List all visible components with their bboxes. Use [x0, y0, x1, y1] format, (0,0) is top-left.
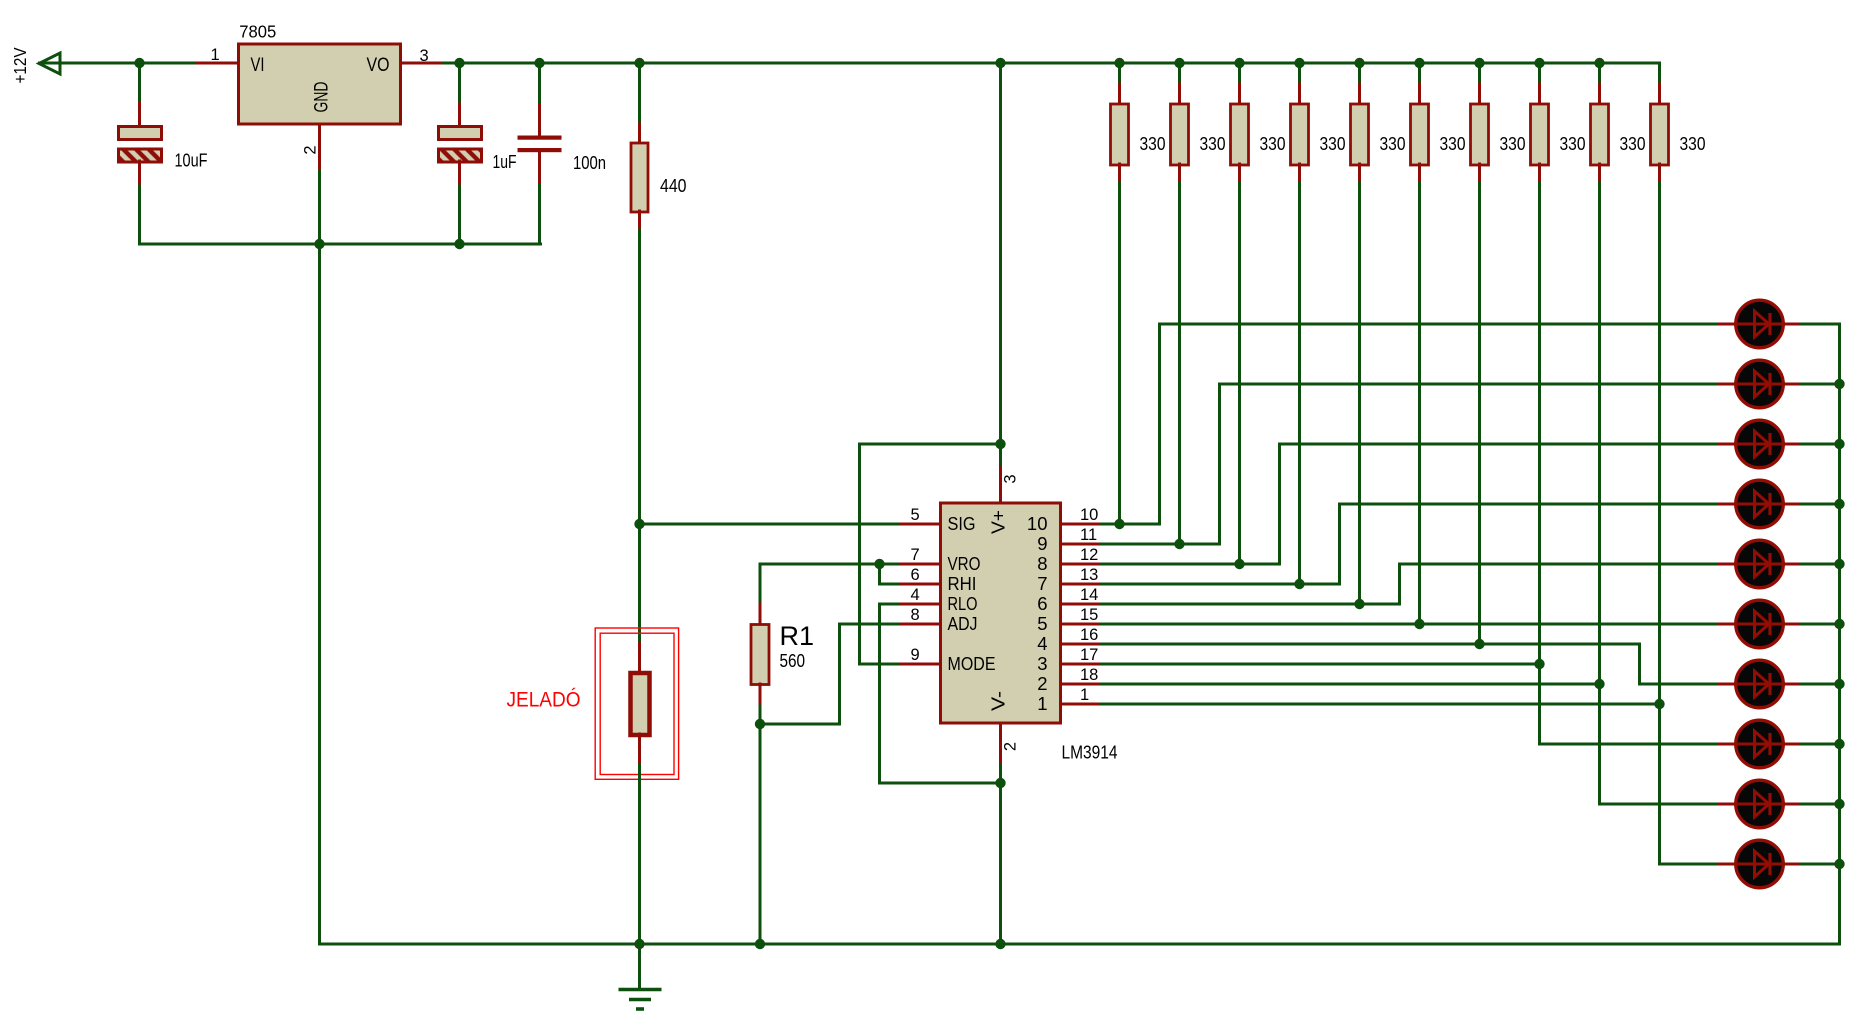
wire RHI branch vertical — [878, 564, 881, 584]
junction top rail at 330 resistor 8 — [1534, 58, 1544, 68]
pin 12 L8 of LM3914 — [1061, 563, 1101, 566]
svg-text:VRO: VRO — [948, 553, 981, 574]
wire output 9 to LED9 — [1600, 803, 1720, 806]
svg-text:3: 3 — [1002, 474, 1020, 483]
svg-text:SIG: SIG — [948, 513, 976, 534]
LED D3 anode lead — [1720, 443, 1737, 446]
resistor 330 #2 body — [1171, 104, 1189, 165]
wire output 8 to LED8 — [1540, 743, 1720, 746]
wire LED4 to right bus — [1801, 503, 1840, 506]
resistor 440 body — [631, 143, 648, 212]
resistor 330 #6 bottom lead — [1418, 164, 1421, 183]
svg-text:JELADÓ: JELADÓ — [507, 687, 581, 712]
capacitor 10uF positive plate — [119, 127, 162, 140]
wire bottom ground rail — [320, 943, 1840, 946]
pin 18 L2 of LM3914 — [1061, 683, 1101, 686]
resistor 330 #6 body — [1411, 104, 1429, 165]
LED D5 anode lead — [1720, 563, 1737, 566]
junction right bus at LED10 — [1834, 859, 1844, 869]
svg-text:+12V: +12V — [10, 47, 30, 83]
LED D6 body — [1736, 600, 1784, 648]
wire pin 18 horizontal — [1101, 683, 1600, 686]
LED D9 cathode lead — [1783, 803, 1801, 806]
junction top rail at V+ drop — [995, 58, 1005, 68]
wire RLO vertical to V- net — [878, 604, 881, 783]
capacitor 100n top lead — [538, 105, 541, 136]
svg-text:8: 8 — [1037, 553, 1047, 574]
resistor R1 top lead — [759, 604, 762, 625]
wire VRO node down to R1 — [759, 564, 762, 605]
wire V+ node to pin 3 — [999, 444, 1002, 464]
wire top rail to 330 resistor 9 — [1598, 63, 1601, 85]
junction top rail at 1uF — [454, 58, 464, 68]
resistor 330 #1 bottom lead — [1118, 164, 1121, 183]
junction output 10 at resistor 10 — [1654, 699, 1664, 709]
svg-text:560: 560 — [780, 651, 806, 671]
svg-text:VI: VI — [251, 55, 265, 76]
LED D8 anode lead — [1720, 743, 1737, 746]
svg-text:ADJ: ADJ — [948, 613, 978, 634]
resistor 330 #7 top lead — [1478, 84, 1481, 105]
resistor 330 #4 body — [1291, 104, 1309, 165]
wire pin 1 horizontal — [1101, 703, 1660, 706]
wire SIG to 440/JELADO node — [640, 523, 899, 526]
capacitor 100n bottom plate — [518, 148, 562, 152]
svg-text:10: 10 — [1027, 513, 1048, 534]
resistor 330 #4 top lead — [1298, 84, 1301, 105]
power terminal arrow +12V — [39, 53, 60, 74]
LED D7 cathode lead — [1783, 683, 1801, 686]
LED D7 body — [1736, 660, 1784, 708]
wire +12V rail to 10uF — [138, 63, 141, 103]
pin 8 ADJ of LM3914 — [899, 623, 941, 626]
pin 3 of 7805 — [401, 62, 440, 65]
wire output 1 to LED1 — [1160, 323, 1720, 326]
junction top rail at 330 resistor 9 — [1594, 58, 1604, 68]
capacitor 10uF top lead — [138, 103, 141, 127]
junction top rail at 10uF — [134, 58, 144, 68]
capacitor 10uF bottom lead — [138, 161, 141, 186]
wire output 4 to LED4 — [1340, 503, 1720, 506]
svg-text:RHI: RHI — [948, 573, 977, 594]
pin 9 MODE of LM3914 — [899, 663, 941, 666]
resistor 330 #10 top lead — [1658, 84, 1661, 105]
wire MODE horizontal to V+ node — [860, 443, 1001, 446]
resistor 330 #8 body — [1531, 104, 1549, 165]
junction VRO-RHI node — [874, 559, 884, 569]
LED D10 cathode lead — [1783, 863, 1801, 866]
svg-text:7: 7 — [911, 546, 920, 564]
svg-text:15: 15 — [1080, 606, 1098, 624]
wire LED2 to right bus — [1801, 383, 1840, 386]
LED D8 cathode lead — [1783, 743, 1801, 746]
svg-text:V-: V- — [988, 691, 1009, 711]
svg-text:MODE: MODE — [948, 653, 996, 674]
junction mid rail at 7805 pin2 — [314, 239, 324, 249]
wire 330 #6 down — [1418, 183, 1421, 624]
junction right bus at LED2 — [1834, 379, 1844, 389]
sensor JELADO inner frame — [600, 633, 674, 774]
svg-text:440: 440 — [660, 176, 687, 196]
svg-text:7805: 7805 — [239, 21, 276, 41]
LED D2 body — [1736, 360, 1784, 408]
LED D1 anode lead — [1720, 323, 1737, 326]
wire JELADO to bottom rail — [638, 765, 641, 944]
junction mid rail at 1uF — [454, 239, 464, 249]
wire +12V rail to 440 resistor — [638, 63, 641, 124]
junction output 5 at resistor 5 — [1354, 599, 1364, 609]
wire top rail to 330 resistor 8 — [1538, 63, 1541, 85]
capacitor 1uF bottom lead — [458, 161, 461, 186]
LED D8 body — [1736, 720, 1784, 768]
resistor 330 #3 bottom lead — [1238, 164, 1241, 183]
LED D4 anode lead — [1720, 503, 1737, 506]
wire VO rail to 100n — [538, 63, 541, 105]
resistor 330 #3 body — [1231, 104, 1249, 165]
LED D9 anode lead — [1720, 803, 1737, 806]
svg-text:4: 4 — [1037, 633, 1047, 654]
LED D7 anode lead — [1720, 683, 1737, 686]
junction V+ node — [995, 439, 1005, 449]
resistor 330 #2 bottom lead — [1178, 164, 1181, 183]
capacitor 1uF positive plate — [439, 127, 482, 140]
capacitor 1uF top lead — [458, 104, 461, 127]
sensor JELADO bottom lead — [638, 734, 641, 765]
wire pin 11 horizontal — [1101, 543, 1220, 546]
wire mid ground rail — [140, 243, 541, 246]
wire output 4 vertical up — [1338, 504, 1341, 584]
wire 330 #4 down — [1298, 183, 1301, 584]
junction top rail at 330 resistor 3 — [1234, 58, 1244, 68]
junction top rail at 330 resistor 4 — [1294, 58, 1304, 68]
resistor 330 #10 body — [1651, 104, 1669, 165]
svg-text:GND: GND — [312, 82, 333, 113]
svg-text:9: 9 — [1037, 533, 1047, 554]
LED D10 anode lead — [1720, 863, 1737, 866]
resistor 330 #1 top lead — [1118, 84, 1121, 105]
wire pin 10 horizontal — [1101, 523, 1160, 526]
LED D4 body — [1736, 480, 1784, 528]
wire RLO horizontal to V- node — [880, 782, 1001, 785]
wire LED9 to right bus — [1801, 803, 1840, 806]
svg-text:7: 7 — [1037, 573, 1047, 594]
resistor 330 #7 body — [1471, 104, 1489, 165]
wire RHI to pin — [880, 583, 899, 586]
wire output 3 vertical up — [1278, 444, 1281, 564]
junction bottom rail at V- — [995, 939, 1005, 949]
svg-text:330: 330 — [1380, 134, 1406, 154]
capacitor 100n top plate — [518, 136, 562, 140]
junction bottom rail at R1 — [755, 939, 765, 949]
resistor 330 #9 bottom lead — [1598, 164, 1601, 183]
LED D6 anode lead — [1720, 623, 1737, 626]
wire pin 16 horizontal — [1101, 643, 1640, 646]
pin 7 VRO of LM3914 — [899, 563, 941, 566]
svg-text:2: 2 — [302, 145, 320, 154]
wire output 2 to LED2 — [1220, 383, 1720, 386]
LED D2 anode lead — [1720, 383, 1737, 386]
junction R1-ADJ node — [755, 719, 765, 729]
wire 330 #9 down — [1598, 183, 1601, 804]
pin 13 L7 of LM3914 — [1061, 583, 1101, 586]
svg-text:1: 1 — [211, 46, 220, 64]
junction right bus at LED4 — [1834, 499, 1844, 509]
pin 15 L5 of LM3914 — [1061, 623, 1101, 626]
svg-text:5: 5 — [1037, 613, 1047, 634]
junction output 4 at resistor 4 — [1294, 579, 1304, 589]
svg-text:10: 10 — [1080, 506, 1098, 524]
wire pin 17 horizontal — [1101, 663, 1540, 666]
LED D1 cathode lead — [1783, 323, 1801, 326]
junction top rail at 100n — [534, 58, 544, 68]
pin 17 L3 of LM3914 — [1061, 663, 1101, 666]
svg-text:3: 3 — [420, 47, 429, 65]
wire RLO to pin — [880, 603, 899, 606]
sensor JELADO top lead — [638, 643, 641, 674]
svg-text:5: 5 — [911, 506, 920, 524]
junction right bus at LED9 — [1834, 799, 1844, 809]
junction right bus at LED5 — [1834, 559, 1844, 569]
wire top rail to 330 resistor 4 — [1298, 63, 1301, 85]
junction output 9 at resistor 9 — [1594, 679, 1604, 689]
svg-text:330: 330 — [1440, 134, 1466, 154]
wire VRO to R1 top — [760, 563, 899, 566]
wire output 7 to LED7 — [1640, 683, 1720, 686]
resistor 330 #2 top lead — [1178, 84, 1181, 105]
wire ADJ vertical — [838, 624, 841, 724]
wire V+ drop from top rail — [999, 63, 1002, 444]
svg-text:3: 3 — [1037, 653, 1047, 674]
pin 16 L4 of LM3914 — [1061, 643, 1101, 646]
svg-text:1: 1 — [1037, 693, 1047, 714]
LED D4 cathode lead — [1783, 503, 1801, 506]
pin 1 L1 of LM3914 — [1061, 703, 1101, 706]
svg-text:330: 330 — [1320, 134, 1346, 154]
junction output 8 at resistor 8 — [1534, 659, 1544, 669]
svg-text:6: 6 — [1037, 593, 1047, 614]
wire 440 to SIG node and JELADO — [638, 230, 641, 644]
wire ADJ to pin — [840, 623, 899, 626]
svg-text:6: 6 — [911, 566, 920, 584]
resistor 330 #5 bottom lead — [1358, 164, 1361, 183]
wire output 2 vertical up — [1218, 384, 1221, 544]
junction output 2 at resistor 2 — [1174, 539, 1184, 549]
wire 7805 pin2 down to bottom rail — [318, 171, 321, 944]
ground symbol — [619, 990, 662, 1010]
wire 330 #2 down — [1178, 183, 1181, 544]
wire 330 #7 down — [1478, 183, 1481, 644]
pin 2 of 7805 — [318, 124, 321, 171]
resistor 330 #6 top lead — [1418, 84, 1421, 105]
svg-text:11: 11 — [1080, 526, 1097, 544]
wire 10uF to gnd-mid rail — [138, 186, 141, 244]
wire LED cathode bus — [1838, 324, 1841, 944]
svg-text:330: 330 — [1620, 134, 1646, 154]
sensor JELADO outer frame — [595, 628, 678, 779]
wire output 7 vertical down — [1638, 644, 1641, 684]
resistor 330 #10 bottom lead — [1658, 164, 1661, 183]
junction SIG node — [634, 519, 644, 529]
resistor 330 #9 top lead — [1598, 84, 1601, 105]
wire top rail to 330 resistor 7 — [1478, 63, 1481, 85]
capacitor 100n bottom lead — [538, 152, 541, 185]
junction right bus at LED8 — [1834, 739, 1844, 749]
svg-text:RLO: RLO — [948, 593, 978, 614]
wire pin 12 horizontal — [1101, 563, 1280, 566]
wire +12V top rail — [40, 62, 1660, 65]
junction output 7 at resistor 7 — [1474, 639, 1484, 649]
wire LED3 to right bus — [1801, 443, 1840, 446]
resistor R1 body — [751, 625, 769, 685]
wire MODE vertical to V+ node — [858, 444, 861, 664]
svg-text:100n: 100n — [573, 153, 606, 173]
junction right bus at LED7 — [1834, 679, 1844, 689]
svg-text:14: 14 — [1080, 586, 1098, 604]
wire 330 #5 down — [1358, 183, 1361, 604]
junction right bus at LED6 — [1834, 619, 1844, 629]
pin 5 SIG of LM3914 — [899, 523, 941, 526]
junction top rail at 330 resistor 7 — [1474, 58, 1484, 68]
svg-text:1: 1 — [1080, 686, 1089, 704]
resistor 330 #5 body — [1351, 104, 1369, 165]
resistor 440 top lead — [638, 124, 641, 144]
LED D5 cathode lead — [1783, 563, 1801, 566]
wire ADJ to R1 bottom — [760, 723, 840, 726]
resistor 330 #5 top lead — [1358, 84, 1361, 105]
svg-text:2: 2 — [1002, 742, 1020, 751]
pin 1 of 7805 — [198, 62, 239, 65]
svg-text:330: 330 — [1140, 134, 1166, 154]
svg-text:330: 330 — [1560, 134, 1586, 154]
pin 11 L9 of LM3914 — [1061, 543, 1101, 546]
pin 14 L6 of LM3914 — [1061, 603, 1101, 606]
resistor 330 #8 bottom lead — [1538, 164, 1541, 183]
LED D3 cathode lead — [1783, 443, 1801, 446]
wire V- to bottom rail — [999, 765, 1002, 944]
wire R1 to bottom rail — [759, 706, 762, 944]
wire LED1 to right bus — [1801, 323, 1840, 326]
pin 6 RHI of LM3914 — [899, 583, 941, 586]
sensor JELADO resistive body — [631, 673, 650, 735]
resistor R1 bottom lead — [759, 684, 762, 706]
wire LED6 to right bus — [1801, 623, 1840, 626]
wire pin 13 horizontal — [1101, 583, 1340, 586]
wire output 3 to LED3 — [1280, 443, 1720, 446]
wire LED7 to right bus — [1801, 683, 1840, 686]
wire 330 #8 down — [1538, 183, 1541, 744]
junction top rail at 330 resistor 5 — [1354, 58, 1364, 68]
wire LED5 to right bus — [1801, 563, 1840, 566]
resistor 330 #9 body — [1591, 104, 1609, 165]
LED D2 cathode lead — [1783, 383, 1801, 386]
resistor 330 #3 top lead — [1238, 84, 1241, 105]
wire top rail to 330 resistor 6 — [1418, 63, 1421, 85]
LED D6 cathode lead — [1783, 623, 1801, 626]
svg-text:330: 330 — [1500, 134, 1526, 154]
svg-text:LM3914: LM3914 — [1062, 743, 1118, 763]
wire output 5 to LED5 — [1400, 563, 1720, 566]
wire 330 #10 down — [1658, 183, 1661, 864]
regulator 7805 U1 body — [239, 44, 401, 124]
junction V- node — [995, 778, 1005, 788]
junction top rail at 330 resistor 1 — [1114, 58, 1124, 68]
wire output 5 vertical up — [1398, 564, 1401, 604]
wire 330 #3 down — [1238, 183, 1241, 564]
resistor 440 bottom lead — [638, 211, 641, 230]
junction top rail at 330 resistor 2 — [1174, 58, 1184, 68]
svg-text:13: 13 — [1080, 566, 1098, 584]
wire top rail to 330 resistor 2 — [1178, 63, 1181, 85]
svg-text:9: 9 — [911, 646, 920, 664]
pin 10 L10 of LM3914 — [1061, 523, 1101, 526]
svg-text:10uF: 10uF — [175, 151, 208, 171]
wire top rail to 330 resistor 10 — [1658, 63, 1661, 85]
wire MODE to pin — [860, 663, 899, 666]
svg-text:12: 12 — [1080, 546, 1098, 564]
svg-text:R1: R1 — [780, 621, 815, 651]
wire output 10 to LED10 — [1660, 863, 1720, 866]
capacitor 10uF hatched plate — [119, 149, 162, 162]
svg-text:16: 16 — [1080, 626, 1098, 644]
svg-text:18: 18 — [1080, 666, 1098, 684]
pin 4 RLO of LM3914 — [899, 603, 941, 606]
svg-text:17: 17 — [1080, 646, 1098, 664]
LED D5 body — [1736, 540, 1784, 588]
junction output 6 at resistor 6 — [1414, 619, 1424, 629]
wire LED10 to right bus — [1801, 863, 1840, 866]
LED D10 body — [1736, 840, 1784, 888]
capacitor 1uF hatched plate — [439, 149, 482, 162]
wire top rail to 330 resistor 1 — [1118, 63, 1121, 85]
wire pin 14 horizontal — [1101, 603, 1400, 606]
wire VO rail to 1uF — [458, 63, 461, 104]
pin 3 V+ of LM3914 — [999, 464, 1002, 503]
wire 100n to mid rail — [538, 185, 541, 244]
LED D1 body — [1736, 300, 1784, 348]
wire top rail to 330 resistor 3 — [1238, 63, 1241, 85]
LED D9 body — [1736, 780, 1784, 828]
junction bottom rail at JELADO/ground — [634, 939, 644, 949]
junction right bus at LED3 — [1834, 439, 1844, 449]
svg-text:V+: V+ — [988, 510, 1009, 534]
wire top rail to 330 resistor 5 — [1358, 63, 1361, 85]
wire LED8 to right bus — [1801, 743, 1840, 746]
pin 2 V- of LM3914 — [999, 723, 1002, 765]
svg-text:VO: VO — [367, 55, 390, 76]
svg-text:4: 4 — [911, 586, 920, 604]
svg-text:8: 8 — [911, 606, 920, 624]
svg-text:330: 330 — [1200, 134, 1226, 154]
op-amp IC LM3914 body — [941, 503, 1061, 723]
resistor 330 #7 bottom lead — [1478, 164, 1481, 183]
resistor 330 #1 body — [1111, 104, 1129, 165]
resistor 330 #4 bottom lead — [1298, 164, 1301, 183]
LED D3 body — [1736, 420, 1784, 468]
wire 330 #1 down — [1118, 183, 1121, 524]
junction output 3 at resistor 3 — [1234, 559, 1244, 569]
wire pin 15 to LED6 — [1101, 623, 1720, 626]
wire ground stub — [638, 944, 641, 989]
resistor 330 #8 top lead — [1538, 84, 1541, 105]
svg-text:330: 330 — [1680, 134, 1706, 154]
svg-text:1uF: 1uF — [493, 152, 517, 172]
junction output 1 at resistor 1 — [1114, 519, 1124, 529]
junction top rail at 330 resistor 6 — [1414, 58, 1424, 68]
wire output 1 vertical up — [1158, 324, 1161, 524]
svg-text:2: 2 — [1037, 673, 1047, 694]
junction top rail at 440 — [634, 58, 644, 68]
svg-text:330: 330 — [1260, 134, 1286, 154]
